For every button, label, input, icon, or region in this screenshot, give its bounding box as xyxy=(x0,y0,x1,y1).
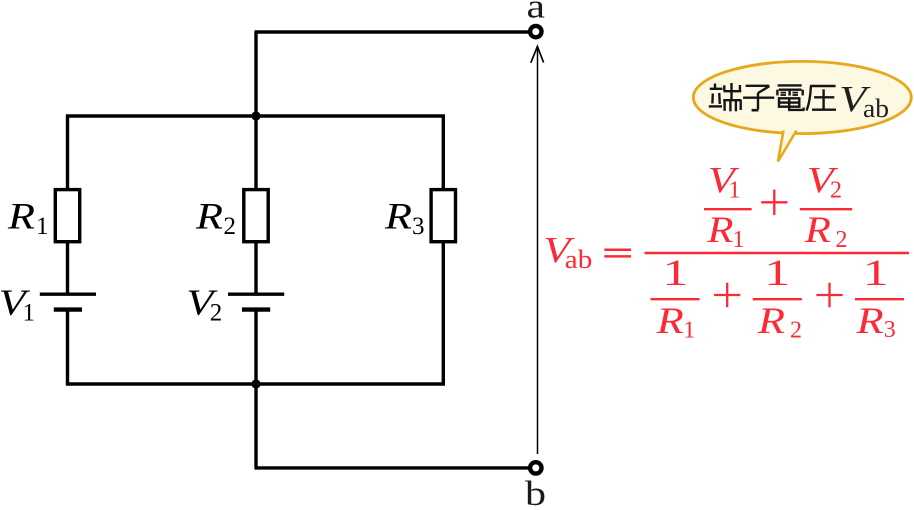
svg-text:1: 1 xyxy=(733,227,745,253)
callout bubble tail xyxy=(778,131,797,162)
svg-text:2: 2 xyxy=(830,177,842,203)
formula plus denominator 2 xyxy=(816,283,842,307)
resistor R2 xyxy=(244,190,268,242)
kanji 電 xyxy=(777,85,803,110)
svg-text:2: 2 xyxy=(790,318,802,344)
battery V1 xyxy=(40,294,96,309)
formula plus denominator 1 xyxy=(714,283,740,307)
svg-text:R: R xyxy=(656,301,684,342)
svg-text:R: R xyxy=(706,210,733,251)
wire: top bus node xyxy=(66,114,445,117)
callout label Vab xyxy=(839,80,889,124)
wire: bottom lead to terminal b xyxy=(255,466,529,469)
svg-text:2: 2 xyxy=(210,300,223,327)
terminal b xyxy=(530,462,541,473)
kanji 端 xyxy=(709,83,742,111)
svg-text:R: R xyxy=(757,301,785,342)
label R1 xyxy=(7,197,49,241)
kanji 圧 xyxy=(807,86,836,111)
svg-text:2: 2 xyxy=(836,227,848,253)
formula fraction V2/R2 xyxy=(800,161,852,253)
kanji 子 xyxy=(743,86,774,110)
svg-text:2: 2 xyxy=(224,213,237,240)
formula fraction 1/R1 xyxy=(651,253,700,344)
formula fraction 1/R3 xyxy=(855,253,904,343)
junction top node xyxy=(251,111,260,120)
terminal a xyxy=(530,26,541,37)
svg-text:R: R xyxy=(384,197,412,238)
wire: branch 1 vertical segments xyxy=(66,115,69,386)
junction bottom node xyxy=(251,379,260,388)
svg-text:1: 1 xyxy=(662,253,688,294)
label R3 xyxy=(384,197,425,240)
resistor R1 xyxy=(55,190,79,242)
label V2 xyxy=(186,283,222,327)
svg-text:1: 1 xyxy=(863,253,889,294)
formula fraction V1/R1 xyxy=(704,161,752,253)
arrow Vab head xyxy=(531,46,544,62)
svg-text:b: b xyxy=(525,474,546,510)
label R2 xyxy=(195,197,236,241)
wire: top lead to terminal a xyxy=(255,30,529,33)
svg-text:R: R xyxy=(804,210,831,251)
svg-text:ab: ab xyxy=(863,94,889,123)
svg-text:a: a xyxy=(527,0,546,25)
formula fraction 1/R2 xyxy=(753,253,802,344)
svg-text:1: 1 xyxy=(23,300,36,327)
svg-text:1: 1 xyxy=(36,213,49,240)
label V1 xyxy=(0,283,35,327)
battery V2 xyxy=(228,294,284,309)
svg-text:R: R xyxy=(7,197,35,238)
svg-text:3: 3 xyxy=(884,317,896,343)
arrow Vab line xyxy=(537,49,539,455)
wire: bottom bus node xyxy=(66,382,445,385)
svg-text:3: 3 xyxy=(412,213,425,240)
formula main fraction bar xyxy=(645,252,910,255)
formula Vab equals xyxy=(543,231,631,274)
formula plus numerator xyxy=(761,190,787,216)
svg-text:R: R xyxy=(855,301,883,342)
resistor R3 xyxy=(431,190,455,242)
svg-text:1: 1 xyxy=(729,177,741,203)
wire: branch 2 vertical segments xyxy=(254,32,257,468)
svg-text:1: 1 xyxy=(683,318,695,344)
svg-text:R: R xyxy=(195,197,223,238)
wire: branch 3 vertical segments xyxy=(442,115,445,386)
svg-text:ab: ab xyxy=(565,245,593,274)
svg-text:1: 1 xyxy=(764,253,790,294)
callout bubble ellipse xyxy=(693,61,911,133)
